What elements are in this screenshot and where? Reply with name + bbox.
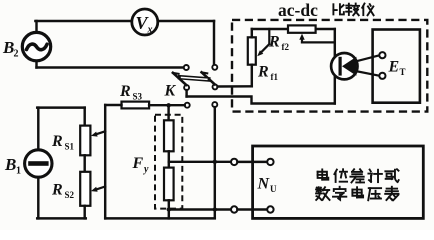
svg-text:y: y xyxy=(143,164,149,175)
svg-text:R: R xyxy=(257,64,269,81)
svg-text:K: K xyxy=(164,83,177,100)
svg-text:f1: f1 xyxy=(271,72,279,82)
svg-text:E: E xyxy=(388,59,400,76)
svg-text:B: B xyxy=(2,38,14,57)
svg-text:F: F xyxy=(132,155,144,172)
svg-text:N: N xyxy=(257,176,271,193)
svg-text:1: 1 xyxy=(16,166,21,177)
svg-text:S1: S1 xyxy=(65,142,75,152)
svg-text:B: B xyxy=(4,155,16,174)
svg-text:f2: f2 xyxy=(282,42,290,52)
svg-text:R: R xyxy=(51,133,63,150)
svg-text:S3: S3 xyxy=(133,92,143,102)
svg-text:S2: S2 xyxy=(65,190,75,200)
svg-text:T: T xyxy=(400,67,406,77)
svg-text:U: U xyxy=(270,184,277,194)
svg-text:R: R xyxy=(268,34,280,51)
svg-text:x: x xyxy=(147,25,153,36)
svg-text:2: 2 xyxy=(14,49,19,60)
svg-text:ac-dc: ac-dc xyxy=(278,0,318,20)
svg-text:R: R xyxy=(119,83,131,100)
svg-text:R: R xyxy=(51,182,63,199)
